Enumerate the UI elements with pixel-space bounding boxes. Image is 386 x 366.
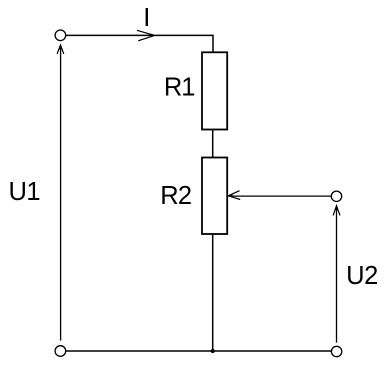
terminal top-left xyxy=(55,30,66,41)
U1 measurement arrow line xyxy=(57,44,64,340)
wire from R2 bottom down to bottom wire xyxy=(212,234,214,351)
junction node xyxy=(211,349,215,353)
svg-text:U1: U1 xyxy=(9,178,40,206)
terminal bottom-right xyxy=(331,346,341,356)
wire between R1 and R2 xyxy=(212,130,214,157)
wire wiper horizontal to right terminal xyxy=(229,195,331,197)
label R2 xyxy=(160,182,191,210)
svg-text:R2: R2 xyxy=(160,182,191,210)
resistor R2 xyxy=(202,158,227,235)
U2 measurement arrow line xyxy=(333,205,340,343)
current arrow I on top wire xyxy=(137,30,155,41)
resistor R1 xyxy=(202,52,227,129)
svg-text:U2: U2 xyxy=(346,262,378,290)
svg-text:I: I xyxy=(143,4,150,32)
svg-text:R1: R1 xyxy=(164,73,195,101)
label U1 xyxy=(9,178,40,206)
wiper arrow into R2 xyxy=(228,191,241,200)
label R1 xyxy=(164,73,195,101)
terminal bottom-left xyxy=(55,346,66,357)
bottom wire xyxy=(66,350,332,352)
label I xyxy=(143,4,150,32)
terminal right (wiper) xyxy=(331,191,341,201)
wire top horizontal from left terminal to corner then down to R1 xyxy=(66,35,213,52)
label U2 xyxy=(346,262,378,290)
